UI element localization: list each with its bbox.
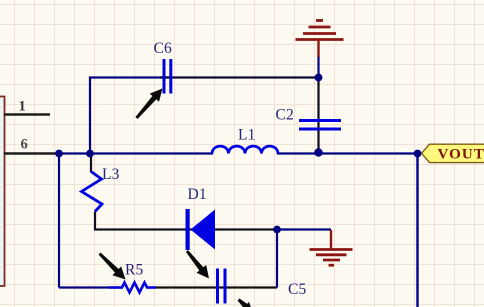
pin 1	[4, 99, 50, 115]
wire bottom left of R5	[59, 286, 123, 288]
capacitor C6	[154, 40, 173, 94]
node junction dot (top, C6/ground/C2)	[315, 74, 323, 82]
pin 6	[4, 137, 59, 154]
wire L3 bottom to D1	[95, 212, 277, 230]
annotation arrow at C5	[186, 250, 209, 278]
diode D1	[186, 186, 216, 250]
port VOUT	[422, 144, 484, 162]
node junction dot (VOUT)	[414, 150, 422, 158]
wire right vertical down from VOUT node	[416, 154, 418, 307]
wire C6 right to top node	[160, 76, 319, 78]
annotation arrow at C6	[135, 89, 162, 119]
wire vertical up to D1 node	[276, 230, 278, 288]
svg-text:1: 1	[19, 99, 26, 115]
svg-text:D1: D1	[188, 186, 207, 203]
wire C6 loop up	[90, 78, 170, 154]
annotation arrow at R5	[99, 253, 126, 280]
wire R5 to C5	[148, 286, 278, 288]
node junction dot (C2 on main wire)	[314, 148, 322, 156]
node junction dot (C6/L3 branch)	[86, 150, 94, 158]
svg-text:C5: C5	[288, 281, 307, 298]
node junction dot (pin6)	[55, 150, 63, 158]
ground (top, inverted earth)	[296, 21, 344, 58]
wire node to ground stem	[277, 228, 331, 230]
svg-text:C2: C2	[276, 107, 295, 124]
wire L3 top stub	[90, 154, 92, 173]
wire top node down through C2 to main	[317, 78, 319, 153]
node junction dot (D1/C5/ground)	[273, 226, 281, 234]
wire main horizontal left	[59, 152, 213, 154]
ground (middle right)	[310, 230, 353, 265]
svg-text:L1: L1	[238, 127, 256, 144]
capacitor C5	[218, 269, 307, 304]
capacitor C2	[276, 107, 342, 130]
svg-text:6: 6	[21, 137, 28, 153]
component box U (left edge, partial)	[0, 97, 5, 287]
wire vertical left down	[58, 154, 60, 288]
wire main horizontal right	[277, 152, 421, 154]
wire top node down to C2	[317, 56, 319, 78]
svg-text:C6: C6	[154, 40, 173, 57]
annotation arrow bottom right (partial)	[238, 299, 254, 307]
svg-text:R5: R5	[125, 262, 144, 279]
svg-text:L3: L3	[102, 166, 120, 183]
inductor L1	[212, 127, 278, 154]
inductor L3	[82, 166, 120, 212]
svg-text:VOUT: VOUT	[438, 147, 484, 163]
resistor R5	[109, 262, 156, 293]
